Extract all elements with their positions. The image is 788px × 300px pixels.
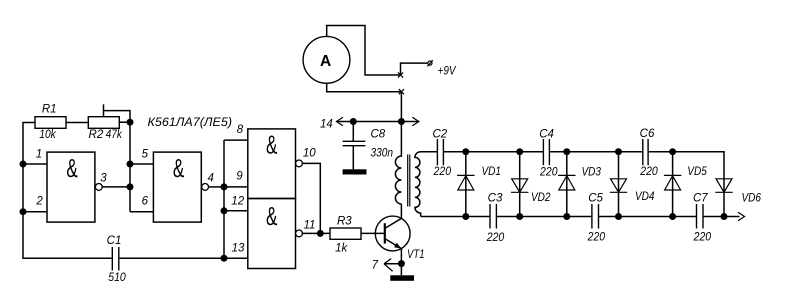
svg-text:&: & bbox=[66, 155, 77, 183]
svg-text:4: 4 bbox=[207, 173, 213, 185]
svg-text:&: & bbox=[266, 131, 277, 159]
svg-text:C4: C4 bbox=[539, 129, 554, 141]
svg-text:11: 11 bbox=[304, 220, 316, 232]
svg-text:330n: 330n bbox=[371, 147, 394, 159]
svg-text:&: & bbox=[173, 155, 184, 183]
svg-text:C5: C5 bbox=[588, 192, 603, 204]
svg-text:VD3: VD3 bbox=[582, 167, 602, 179]
svg-text:5: 5 bbox=[142, 149, 149, 161]
svg-text:A: A bbox=[320, 53, 331, 70]
svg-text:1: 1 bbox=[36, 149, 42, 161]
svg-text:220: 220 bbox=[693, 231, 712, 243]
svg-text:220: 220 bbox=[587, 231, 606, 243]
svg-text:47k: 47k bbox=[106, 129, 123, 141]
svg-text:220: 220 bbox=[486, 232, 505, 244]
svg-text:3: 3 bbox=[100, 173, 107, 185]
svg-text:R3: R3 bbox=[337, 216, 352, 228]
svg-text:6: 6 bbox=[142, 195, 149, 207]
svg-text:14: 14 bbox=[320, 118, 333, 130]
svg-text:VD4: VD4 bbox=[635, 191, 655, 203]
svg-text:&: & bbox=[266, 203, 277, 231]
svg-text:10: 10 bbox=[303, 148, 316, 160]
svg-text:C3: C3 bbox=[488, 193, 503, 205]
svg-text:R1: R1 bbox=[42, 103, 57, 115]
svg-text:8: 8 bbox=[237, 124, 244, 136]
svg-text:9: 9 bbox=[236, 170, 243, 182]
svg-text:C2: C2 bbox=[432, 129, 447, 141]
svg-text:+9V: +9V bbox=[438, 65, 457, 77]
svg-text:1k: 1k bbox=[335, 243, 348, 255]
svg-text:220: 220 bbox=[639, 166, 658, 178]
svg-text:13: 13 bbox=[232, 242, 245, 254]
svg-text:7: 7 bbox=[372, 259, 379, 271]
svg-text:C1: C1 bbox=[107, 235, 122, 247]
svg-text:C6: C6 bbox=[640, 128, 655, 140]
svg-text:220: 220 bbox=[433, 166, 452, 178]
svg-text:VD2: VD2 bbox=[531, 192, 551, 204]
svg-text:VD1: VD1 bbox=[482, 166, 502, 178]
svg-text:VD6: VD6 bbox=[742, 193, 762, 205]
svg-text:10k: 10k bbox=[39, 129, 57, 141]
svg-text:C8: C8 bbox=[371, 129, 386, 141]
svg-text:2: 2 bbox=[35, 195, 43, 207]
svg-text:VT1: VT1 bbox=[407, 249, 425, 261]
svg-text:12: 12 bbox=[231, 196, 244, 208]
svg-text:510: 510 bbox=[108, 272, 126, 284]
svg-text:VD5: VD5 bbox=[687, 166, 707, 178]
svg-text:C7: C7 bbox=[693, 192, 708, 204]
svg-text:220: 220 bbox=[539, 166, 558, 178]
svg-text:К561ЛА7(ЛЕ5): К561ЛА7(ЛЕ5) bbox=[148, 117, 233, 129]
svg-text:R2: R2 bbox=[89, 129, 104, 141]
